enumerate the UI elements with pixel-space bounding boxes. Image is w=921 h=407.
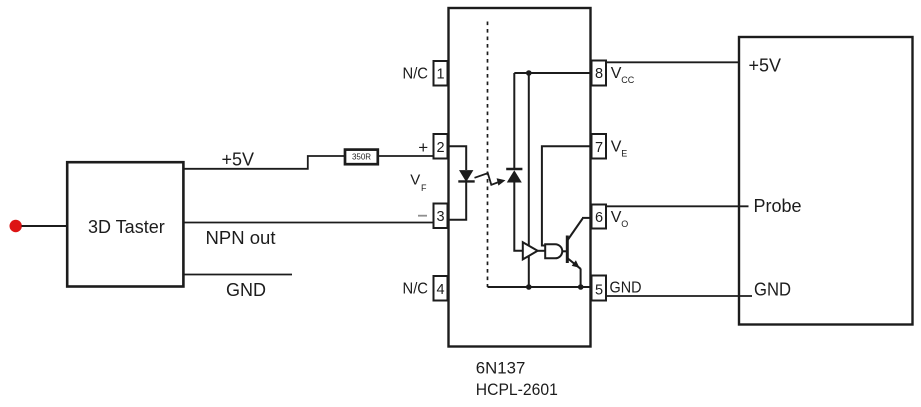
wire: VCC to photodiode [513,73,515,169]
pin 5 box [592,276,607,301]
wire: GND stub from taster [184,274,292,276]
svg-text:N/C: N/C [403,66,429,83]
wire: VCC branch down to GND rail [528,73,530,287]
svg-text:E: E [621,149,627,159]
light emission arrow [475,173,498,185]
amplifier buffer A1 [523,242,538,259]
svg-text:V: V [611,209,622,226]
svg-text:+5V: +5V [749,56,782,76]
svg-text:+: + [418,138,428,157]
IC U1 6N137 body [449,8,591,347]
svg-text:O: O [621,219,628,229]
GND rail inside IC [488,286,592,288]
wire: photodiode to amplifier input [514,183,523,251]
svg-text:GND: GND [610,279,642,296]
junction at VCC rail [526,70,532,76]
svg-text:6: 6 [595,210,603,226]
wire: VCC rail from pin 8 [514,72,591,74]
wire: pin 7 enable to gate [542,146,592,245]
probe tip node (red dot) [10,220,22,232]
terminal block (right box) [739,37,913,325]
pin 1 box [434,61,448,86]
wire: pin 2 to LED anode [448,146,467,170]
wire: LED cathode to pin 3 [448,182,467,220]
svg-text:1: 1 [436,67,444,83]
wire: NPN out, taster to pin 3 [184,222,433,224]
svg-text:2: 2 [436,140,444,156]
wire: pin 6 to Probe [606,205,749,207]
svg-text:GND: GND [754,280,791,300]
wire: probe tip to 3D Taster [22,225,68,227]
transistor Q1 (output, open collector) [566,236,569,264]
svg-text:HCPL-2601: HCPL-2601 [476,380,558,399]
photodiode PD1 [506,168,522,170]
svg-text:Probe: Probe [754,196,802,216]
wire: +5V from taster to resistor [184,156,345,169]
svg-text:N/C: N/C [403,281,429,298]
pin 6 box [592,205,607,229]
wire: pin 8 to +5V [606,61,739,63]
svg-text:7: 7 [595,140,603,156]
svg-text:GND: GND [226,280,266,300]
label - (pin 3, gray) [418,215,427,217]
wire: pin 5 to GND [606,295,752,297]
optical isolation barrier (dashed) [487,22,489,288]
pin 7 box [592,134,607,159]
svg-text:6N137: 6N137 [476,358,526,377]
svg-text:3: 3 [436,209,444,225]
wire: gate output to transistor base [562,250,566,252]
svg-text:4: 4 [436,282,444,298]
LED D1 (emitter diode) [460,171,473,181]
svg-text:+5V: +5V [222,150,255,170]
wire: buffer output to gate [538,250,546,252]
svg-text:V: V [611,139,622,156]
junction: emitter on GND rail [578,284,584,290]
svg-text:NPN out: NPN out [206,228,276,248]
pin 4 box [434,276,448,301]
svg-text:8: 8 [595,66,603,82]
wire: collector to pin 6 [582,217,592,219]
svg-text:CC: CC [621,75,634,85]
pin 3 box [434,204,448,229]
svg-text:V: V [611,65,622,82]
3D Taster box [67,162,183,286]
junction: VCC branch on GND rail [526,284,532,290]
wire: emitter down to GND rail [580,269,582,288]
svg-text:3D Taster: 3D Taster [88,217,165,237]
pin 8 box [592,61,607,86]
wire: resistor to pin 2 [379,155,434,157]
AND gate G1 [545,244,562,258]
pin 2 box [434,134,448,159]
svg-text:5: 5 [595,283,603,299]
svg-text:350R: 350R [352,153,371,162]
resistor R1 350R [345,150,378,165]
svg-text:V: V [410,172,420,189]
svg-text:F: F [421,183,427,193]
